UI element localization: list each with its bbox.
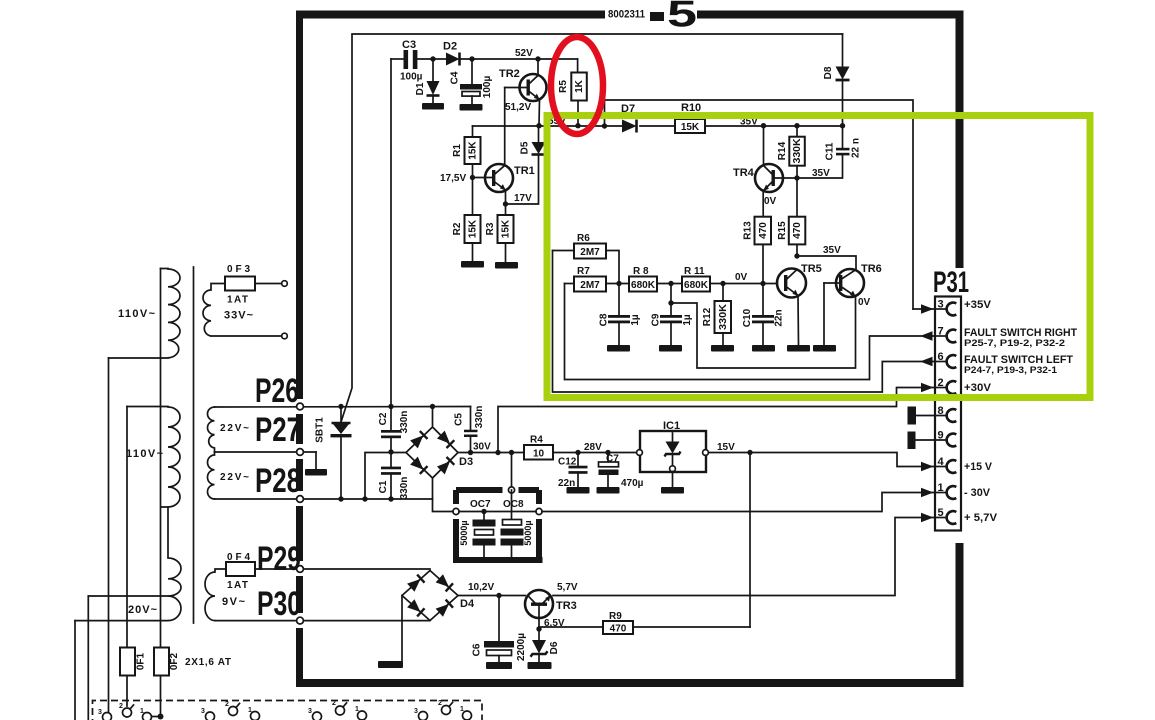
secondary winding 22V no.2 [208,452,215,499]
svg-text:22n: 22n [774,309,785,326]
P26 terminal circle [297,403,304,410]
svg-text:330K: 330K [792,138,803,164]
svg-text:33V~: 33V~ [224,310,254,322]
svg-text:15K: 15K [681,122,700,133]
svg-text:2M7: 2M7 [580,247,600,258]
resistor R1 [465,126,481,178]
node C5 bottom [468,450,473,455]
ground R2 [461,261,484,268]
arrow in pin2 [921,383,934,392]
svg-text:5000µ: 5000µ [523,520,533,545]
resistor R5 [571,59,587,126]
ground D4 [378,661,403,668]
svg-text:P28: P28 [255,462,301,500]
svg-text:D8: D8 [823,66,834,79]
svg-text:R9: R9 [609,611,622,622]
svg-text:330n: 330n [399,411,410,434]
svg-text:2: 2 [938,377,944,389]
P30 terminal circle [297,617,304,624]
svg-text:R15: R15 [777,221,788,240]
transistor TR6 [824,269,864,345]
node SBT1 bottom on P28 row [338,496,343,501]
node D8 rail [840,123,845,128]
node SBT1 on P26 row [338,404,343,409]
wire OF4 to P29 terminal [255,568,430,570]
node C6 [496,593,501,598]
zener D6 [531,629,548,662]
resistor R6 [553,244,620,284]
pin 9 termination bar [908,432,916,450]
svg-text:R1: R1 [452,144,463,157]
wire SBT1 stem from P26 row [340,407,342,423]
svg-text:R13: R13 [743,221,754,240]
node takeoff [602,123,607,128]
main rail 55V row [473,125,844,127]
svg-text:TR6: TR6 [861,263,882,275]
capacitor C4 [460,59,482,104]
svg-text:9V~: 9V~ [222,596,246,608]
svg-text:1AT: 1AT [227,580,248,591]
node TR3 base [536,626,541,631]
pin 3 [936,299,956,316]
svg-text:28V: 28V [584,442,602,453]
svg-text:100µ: 100µ [482,76,493,99]
svg-text:P25-7, P19-2, P32-2: P25-7, P19-2, P32-2 [964,338,1065,348]
svg-text:22 n: 22 n [851,138,862,158]
svg-text:470: 470 [610,624,627,635]
svg-text:9: 9 [938,430,944,442]
pin 1 [936,482,956,499]
border left segments with connector gaps [296,11,303,400]
svg-text:C3: C3 [402,39,416,51]
diode D2 [446,53,578,66]
P30 wire [215,620,430,622]
pin 6 [936,351,956,368]
svg-text:1: 1 [140,708,144,715]
svg-text:330n: 330n [399,477,410,500]
svg-text:R4: R4 [530,435,543,446]
arrow in pin4 [921,462,934,471]
svg-text:R 8: R 8 [633,266,649,277]
AC feed wire x88 [87,596,89,720]
svg-text:330n: 330n [474,406,485,429]
svg-text:0F2: 0F2 [169,652,180,670]
resistor R11 [682,277,777,292]
svg-text:1K: 1K [574,79,585,93]
node C10 R13 [760,281,765,286]
svg-text:D5: D5 [520,141,531,154]
plug pin 1-3 circle [103,713,112,720]
svg-text:+15 V: +15 V [964,461,993,473]
svg-text:10,2V: 10,2V [468,582,494,593]
svg-text:C6: C6 [472,643,483,656]
svg-text:6: 6 [938,351,944,363]
svg-text:22V~: 22V~ [220,472,249,483]
node C4 top [469,56,474,61]
box OC7 OC8 [453,487,543,560]
pin 2 [936,377,956,394]
svg-text:2: 2 [119,703,123,710]
wire TR4 collector feed [763,126,765,165]
svg-text:IC1: IC1 [663,420,680,432]
svg-text:3: 3 [414,708,418,715]
arrow in pin5 [921,513,934,522]
svg-text:470µ: 470µ [621,478,644,489]
wire 15V down to R9 [749,453,751,628]
transistor TR4 [755,164,797,217]
ground TR5 [787,345,810,352]
wire -30V row [433,493,936,512]
svg-text:C12: C12 [558,457,577,468]
svg-text:22V~: 22V~ [220,423,249,434]
svg-text:P31: P31 [933,266,969,299]
svg-text:3: 3 [308,708,312,715]
node C1 bottom P28 row [388,496,393,501]
svg-text:52V: 52V [515,48,533,59]
border right segments with P31 gap [956,11,964,269]
svg-text:C2: C2 [378,412,389,425]
node TR4 feed [761,123,766,128]
svg-text:OC8: OC8 [503,499,524,510]
P27 terminal circle [297,449,304,456]
svg-text:2: 2 [332,700,336,707]
resistor R7 [565,277,630,292]
node C8 [616,281,621,286]
ground C4 [460,104,483,111]
svg-text:TR4: TR4 [733,167,755,179]
capacitor C5 [464,407,478,453]
transistor TR5 [777,269,806,346]
P28 terminal circle [297,496,304,503]
svg-text:470: 470 [758,222,769,239]
secondary winding 33V [203,284,282,337]
wire OC8 drop [511,453,513,488]
pin 5 [936,507,956,524]
dashed connector box bottom [93,701,483,720]
node R12 [720,281,725,286]
transistor TR2 [505,59,547,126]
node 15V R9 riser [747,450,752,455]
ground IC1 [661,487,684,494]
arrow out pin6 [920,357,933,366]
svg-text:D6: D6 [549,641,560,654]
svg-text:P30: P30 [257,585,301,623]
resistor R15 [789,178,806,256]
svg-text:C5: C5 [454,413,465,426]
fuse OF2 [154,648,169,676]
svg-text:3: 3 [938,299,944,311]
svg-text:5000µ: 5000µ [459,520,469,545]
resistor R13 [755,217,772,284]
wire OF3 to terminal [255,283,282,285]
svg-text:17,5V: 17,5V [440,173,466,184]
wire 30V up and to pin2 [498,388,935,453]
wire pin6 net from R6 [553,251,936,393]
capacitor OC7 [473,512,496,558]
fuse OF4 [226,562,255,576]
P27 wire [215,451,317,453]
svg-text:SBT1: SBT1 [315,417,326,443]
node R14 rail [794,123,799,128]
ground C6 [486,662,512,669]
svg-text:1: 1 [355,706,359,713]
terminal circle 33V bottom [282,333,288,339]
svg-text:P26: P26 [255,372,299,410]
ground R3 [495,262,518,269]
svg-text:P24-7, P19-3, P32-1: P24-7, P19-3, P32-1 [964,365,1057,375]
resistor R3 [498,204,514,262]
svg-text:35V: 35V [823,245,841,256]
red circle annotation around R5 [551,37,603,134]
capacitor C7 [599,453,619,488]
AC feed wire x127 (through fuse OF1) [126,407,128,707]
P29 terminal circle [297,566,304,573]
pin 9 [916,430,957,447]
svg-text:0V: 0V [764,196,777,207]
svg-text:1: 1 [460,706,464,713]
capacitor C8 [608,284,630,346]
wire bridge left leg to P28 row [365,453,406,500]
arrow out pin7 [920,331,933,340]
connector P31 body [935,297,961,531]
svg-text:680K: 680K [631,280,656,291]
svg-text:R14: R14 [777,141,788,160]
diode D7 [622,120,637,133]
svg-text:1µ: 1µ [630,314,641,326]
capacitor C12 [569,453,588,488]
node bridge top [430,404,435,409]
svg-text:51,2V: 51,2V [505,102,531,113]
svg-text:C9: C9 [651,313,662,326]
svg-text:7: 7 [938,326,944,338]
svg-text:R5: R5 [558,80,569,93]
regulator IC1 [637,431,709,487]
svg-text:D1: D1 [415,82,426,95]
P27 ground [305,469,327,476]
ground D1 [422,103,444,110]
ground C7 [597,487,620,494]
pin 8 termination bar [908,407,917,425]
resistor R14 [789,126,805,178]
svg-text:D3: D3 [459,456,473,468]
MAINS-PLUG-GROUP-3 [308,700,367,720]
svg-text:15K: 15K [500,219,511,238]
AC feed wire x108 [108,358,110,712]
svg-text:3: 3 [98,709,102,716]
P26 wire [215,406,471,409]
svg-text:20V~: 20V~ [128,604,158,616]
svg-text:0F1: 0F1 [136,652,147,670]
svg-text:+30V: +30V [964,382,992,394]
capacitor C3 [391,50,446,69]
node emitter TR1 [503,201,508,206]
node TR5 collector [794,253,799,258]
thyristor SBT1 [331,423,352,499]
border top-left segment [296,11,605,19]
svg-text:2M7: 2M7 [580,280,600,291]
wire top loop to D8 and SBT1 [341,34,843,422]
svg-text:15K: 15K [467,141,478,160]
node TR2 emitter rail [536,123,541,128]
svg-text:30V: 30V [473,442,491,453]
node C7 [605,450,610,455]
dash left of big 5 [650,12,664,21]
MAINS-PLUG-GROUP-4 [414,700,472,720]
resistor R2 [465,178,481,262]
svg-text:P27: P27 [255,411,301,449]
svg-text:P29: P29 [257,540,301,578]
capacitor C6 [484,596,514,663]
svg-text:2200µ: 2200µ [516,633,527,661]
plug pin 1-1 circle [143,713,152,720]
wire 15V to pin4 [708,453,935,467]
node D1 top [430,56,435,61]
svg-text:100µ: 100µ [400,72,423,83]
arrow in pin3 [913,308,935,310]
svg-text:R7: R7 [577,266,590,277]
capacitor C1 [381,467,401,475]
transformer core [193,267,195,623]
capacitor C2 [381,430,401,438]
svg-text:17V: 17V [514,193,532,204]
svg-text:OC7: OC7 [470,499,491,510]
svg-text:R 11: R 11 [684,266,705,277]
ground R12 [711,345,734,352]
node bridge left leg [362,496,367,501]
capacitor C10 [752,284,774,346]
secondary winding 22V no.1 [208,407,215,452]
ground D6 [528,662,552,669]
node 30V riser [495,450,500,455]
plug pin 1-2 circle [123,708,132,717]
node OC8 drop [509,450,514,455]
border top-right segment [697,11,964,19]
node C1C2 mid [388,449,393,454]
svg-text:R6: R6 [577,233,590,244]
svg-text:0V: 0V [858,297,871,308]
AC feed wire x75 [74,621,76,720]
terminal circle 33V top [282,281,288,287]
svg-text:0F4: 0F4 [227,552,250,563]
capacitor OC8 [501,490,524,557]
resistor R4 [524,445,640,460]
svg-text:R3: R3 [485,222,496,235]
wire 30V row [458,452,524,454]
fuse OF1 [120,648,135,676]
svg-text:1: 1 [938,482,944,494]
ground C8 [607,345,630,352]
svg-text:15V: 15V [717,442,735,453]
secondary winding 9V [205,569,226,621]
svg-text:TR5: TR5 [801,263,822,275]
svg-text:2X1,6 AT: 2X1,6 AT [185,657,231,668]
svg-text:680K: 680K [684,280,709,291]
svg-text:C8: C8 [599,313,610,326]
bridge rectifier D4 [402,571,458,662]
svg-text:1AT: 1AT [227,295,248,306]
svg-text:D2: D2 [443,41,457,53]
wire pin7 net from R7 [565,284,936,380]
svg-text:0V: 0V [735,272,748,283]
junction dot into group 1 [158,714,164,720]
node TR1 base [470,175,475,180]
svg-text:0F3: 0F3 [227,264,250,275]
svg-text:- 30V: - 30V [964,487,991,499]
diode D1 [427,59,440,103]
node C9 [668,281,673,286]
svg-text:35V: 35V [812,168,830,179]
arrow in pin1 [921,488,934,497]
svg-text:C11: C11 [825,142,836,160]
ground C9 [659,345,682,352]
svg-text:8002311: 8002311 [608,9,645,21]
wire C9 node to TR6 emitter [671,298,856,369]
wire TR3 emitter to pin5 [553,518,935,596]
ground TR6 base [813,345,836,352]
primary winding 110V no.1 [109,269,181,359]
green highlight annotation box [547,116,1090,398]
bridge rectifier D3 [406,407,458,500]
diode D5 [506,126,546,204]
svg-text:2: 2 [225,701,229,708]
svg-text:5: 5 [938,507,944,519]
node C9 branch [668,300,673,305]
pin 8 [916,405,956,422]
P28 wire [215,498,433,500]
svg-text:TR2: TR2 [499,68,520,80]
svg-text:330K: 330K [718,303,729,330]
capacitor C9 [660,284,682,346]
node TR2 collector [535,56,540,61]
node C12 [575,450,580,455]
MAINS-PLUG-GROUP-1 [98,703,164,720]
svg-text:+35V: +35V [964,299,992,311]
node R5 bottom [575,123,580,128]
P27 ground drop [315,452,317,469]
node TR4 base [794,175,799,180]
svg-text:R2: R2 [452,222,463,235]
primary winding 20V with tap [75,507,181,621]
svg-text:+ 5,7V: + 5,7V [964,512,998,524]
transistor TR3 [525,590,553,629]
svg-text:TR1: TR1 [514,165,535,177]
MAINS-PLUG-GROUP-2 [201,701,260,720]
svg-text:C4: C4 [450,71,461,84]
svg-text:8: 8 [938,405,944,417]
diode D8 [836,34,850,126]
resistor R10 [675,119,705,133]
svg-text:C7: C7 [606,454,619,465]
ground C12 [567,487,590,494]
node C2 top P26 row [388,404,393,409]
svg-text:R12: R12 [702,307,713,326]
wire 35V takeoff to pin3 [605,100,914,309]
svg-text:1: 1 [248,707,252,714]
svg-text:1µ: 1µ [682,314,693,326]
svg-text:5,7V: 5,7V [557,582,578,593]
resistor R9 [539,621,750,635]
wire 35V to TR6 collector [797,256,856,270]
AC feed wire x160 (through fuse OF2) [160,269,162,715]
ground C10 [752,345,775,352]
svg-text:3: 3 [201,708,205,715]
pin 4 [936,456,956,473]
capacitor C11 [797,126,850,178]
wire bridge D4 to TR3 [458,595,525,597]
svg-text:5: 5 [667,0,697,35]
border bottom [296,679,964,687]
pin 7 [936,326,956,343]
